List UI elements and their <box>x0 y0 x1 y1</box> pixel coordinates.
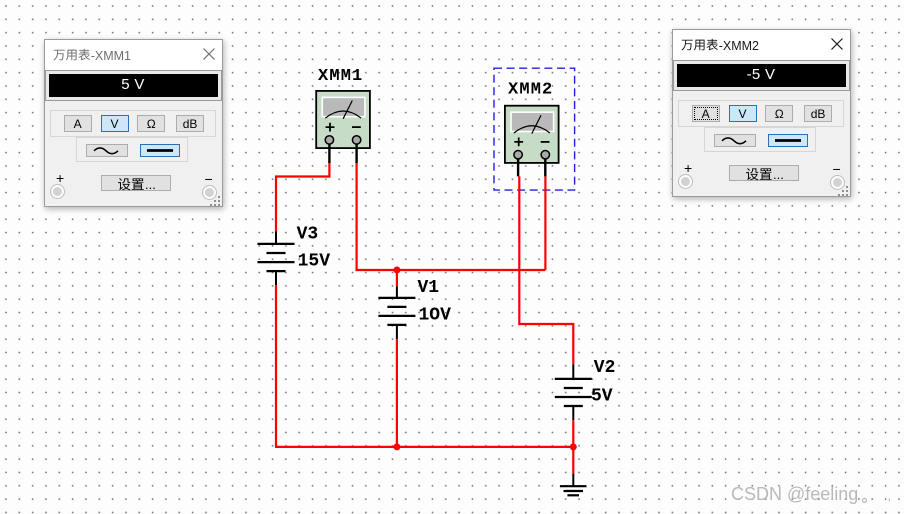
wire V2 bottom to rail junction <box>572 420 574 447</box>
button V (selected) <box>729 105 757 122</box>
multimeter instrument XMM1 <box>316 67 370 148</box>
XMM1 pin - (black stub) <box>355 144 357 163</box>
wire V1 bottom to bottom rail <box>396 339 398 447</box>
svg-text:XMM1: XMM1 <box>318 67 363 86</box>
svg-text:V3: V3 <box>297 225 319 245</box>
resize grip <box>210 194 221 205</box>
terminal - <box>831 176 844 189</box>
close button X <box>203 40 216 70</box>
mode group <box>50 110 216 137</box>
terminal + <box>51 185 64 198</box>
svg-text:V1: V1 <box>418 278 440 298</box>
title bar <box>673 30 850 60</box>
junction node V1 bottom <box>393 443 400 450</box>
waveform group <box>704 127 816 152</box>
hidden defs: CJK glyph outlines <box>0 0 1 1</box>
waveform group <box>76 137 188 162</box>
svg-text:...: ... <box>773 167 784 182</box>
svg-text:1OV: 1OV <box>419 306 452 326</box>
mode group <box>678 100 844 127</box>
button DC (selected) <box>768 134 808 147</box>
wire XMM2+ to V2 top <box>519 176 573 364</box>
svg-text:-XMM2: -XMM2 <box>719 39 759 53</box>
svg-text:5V: 5V <box>591 387 613 407</box>
XMM1 pin + (black stub) <box>328 144 330 163</box>
plus label <box>56 170 64 186</box>
button DC (selected) <box>140 144 180 157</box>
button Ohm <box>765 105 793 122</box>
svg-text:V2: V2 <box>594 358 616 378</box>
terminal + <box>679 175 692 188</box>
resize grip <box>838 184 849 195</box>
button AC (sine) <box>714 134 756 147</box>
svg-text:...: ... <box>145 177 156 192</box>
watermark <box>731 484 874 505</box>
multimeter instrument XMM2 <box>505 81 559 163</box>
close button X <box>831 30 844 60</box>
junction node V2 bottom <box>570 443 577 450</box>
button dB <box>176 115 204 132</box>
XMM2 pin + (black stub) <box>517 159 519 177</box>
button AC (sine) <box>86 144 128 157</box>
button A <box>692 105 720 122</box>
wire junction to ground <box>572 447 574 474</box>
selection box around XMM2 <box>494 68 575 190</box>
plus label <box>684 160 692 176</box>
wire V3 bottom to bottom rail <box>276 285 573 447</box>
button V (selected) <box>101 115 129 132</box>
title bar <box>45 40 222 70</box>
wire XMM1- to node at y270 <box>357 163 546 270</box>
battery V1 <box>378 286 415 339</box>
button dB <box>804 105 832 122</box>
battery V3 <box>258 232 295 286</box>
wire XMM2- down to y270 <box>544 176 546 270</box>
wire XMM1+ to V3 top <box>276 163 329 231</box>
multimeter window XMM1 <box>44 39 223 207</box>
minus label <box>205 171 213 187</box>
svg-text:15V: 15V <box>298 252 331 272</box>
button Ohm <box>137 115 165 132</box>
minus label <box>833 161 841 177</box>
multimeter window XMM2 <box>672 29 851 197</box>
wire V1 top from node <box>396 270 398 286</box>
button A <box>64 115 92 132</box>
display <box>674 61 849 90</box>
ground <box>560 474 587 496</box>
settings button <box>101 175 171 191</box>
svg-text:XMM2: XMM2 <box>508 81 553 100</box>
junction node V1 top <box>393 267 400 274</box>
battery V2 <box>555 364 592 420</box>
XMM2 pin - (black stub) <box>544 159 546 177</box>
svg-text:-XMM1: -XMM1 <box>91 49 131 63</box>
terminal - <box>203 186 216 199</box>
settings button <box>729 165 799 181</box>
display <box>46 71 221 100</box>
